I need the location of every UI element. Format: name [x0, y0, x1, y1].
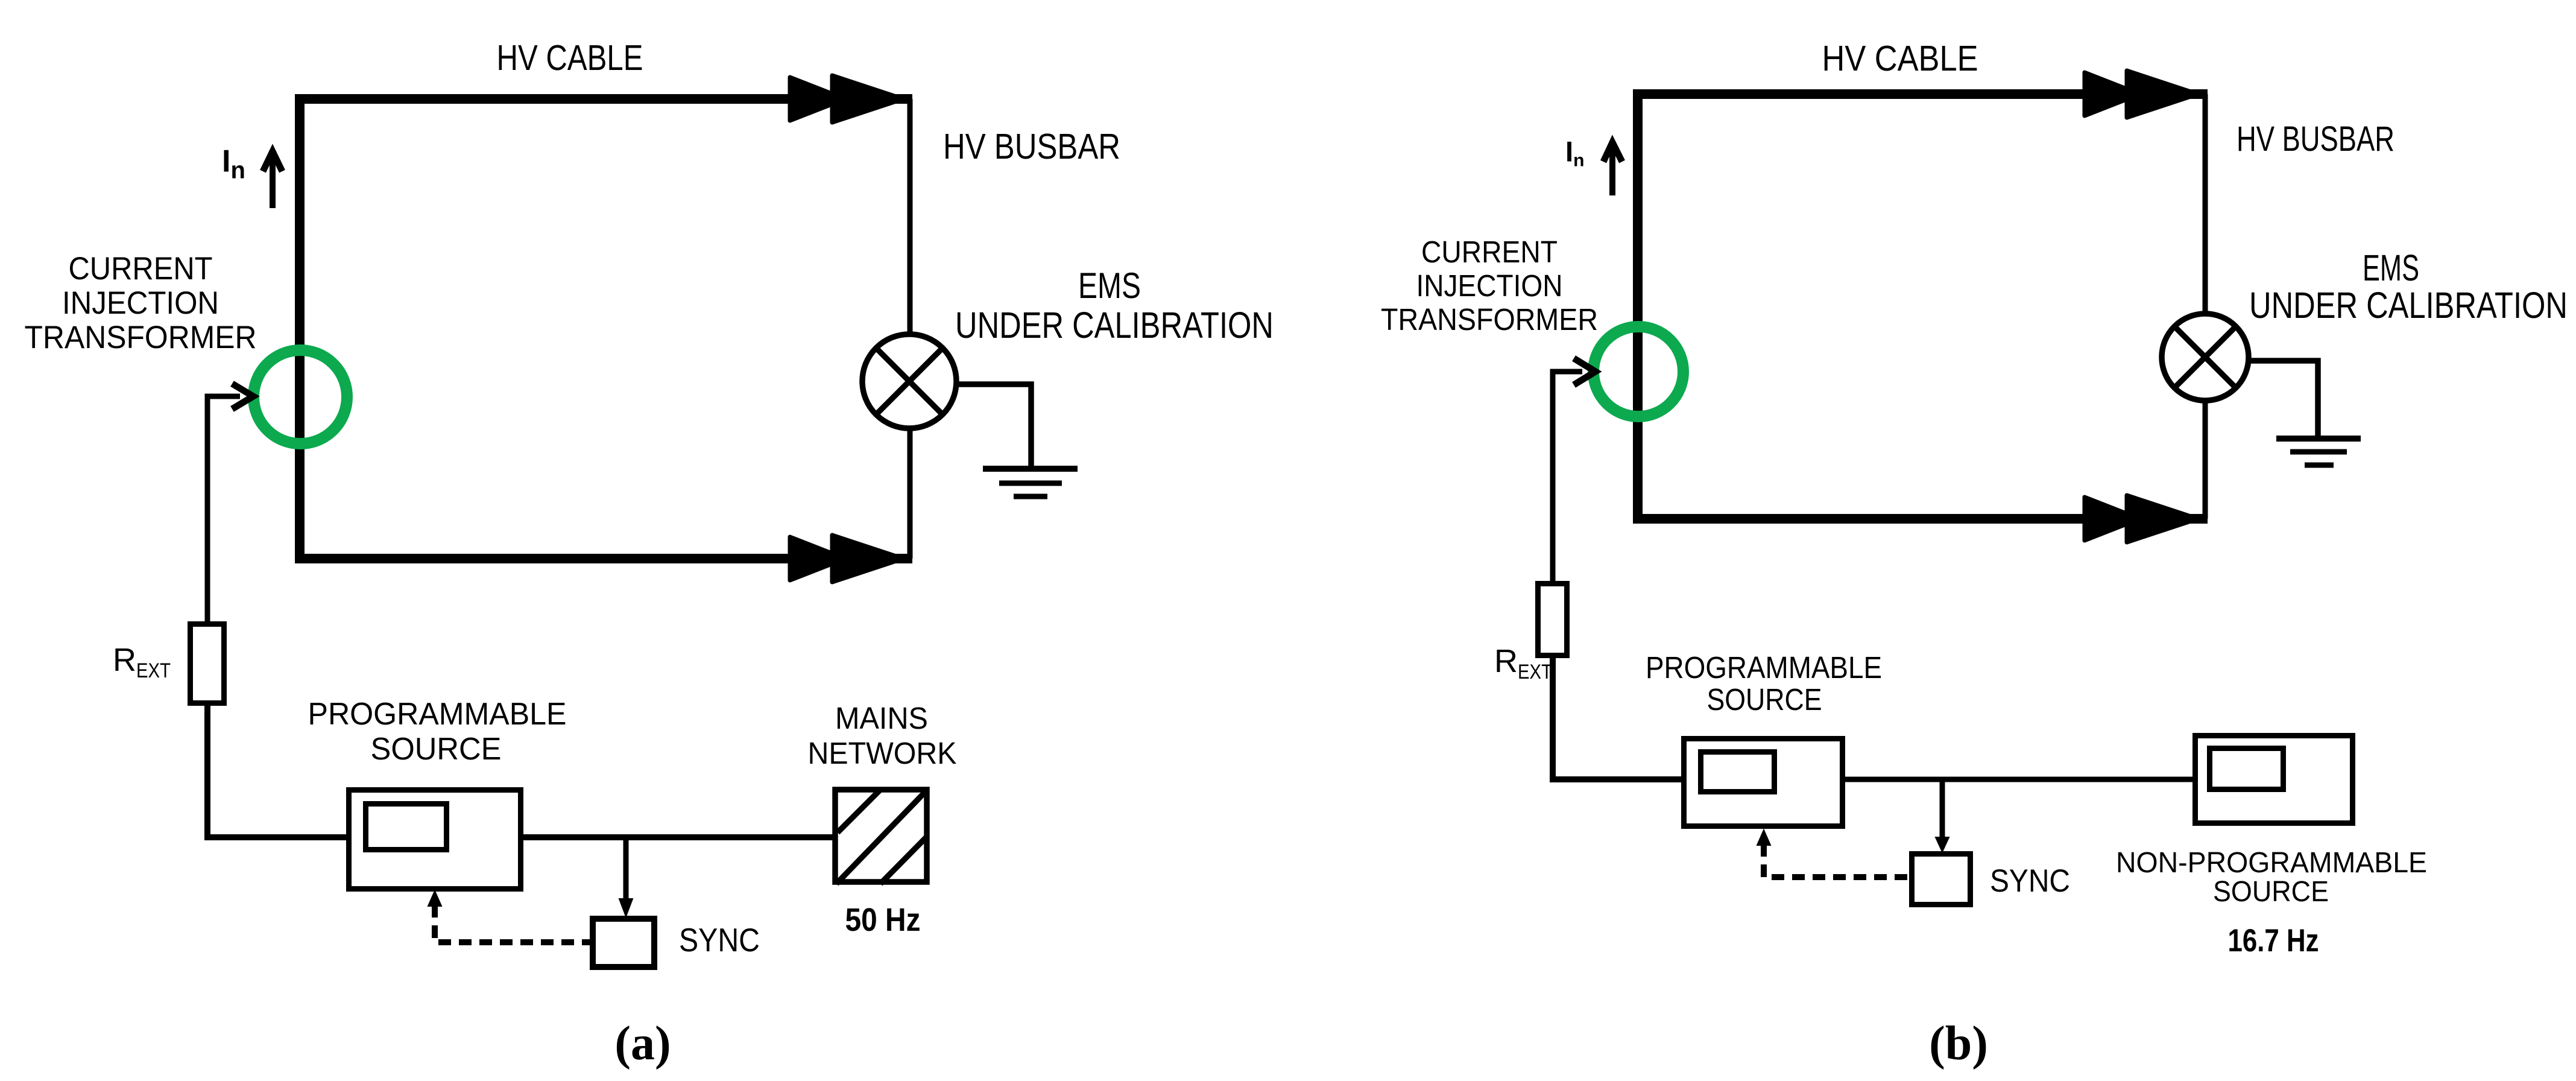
- svg-text:16.7 Hz: 16.7 Hz: [2228, 923, 2319, 959]
- svg-text:HV CABLE: HV CABLE: [1822, 39, 1978, 78]
- svg-text:(b): (b): [1929, 1017, 1988, 1070]
- svg-text:50 Hz: 50 Hz: [845, 902, 921, 938]
- svg-text:EMS: EMS: [1078, 265, 1141, 306]
- svg-text:MAINS: MAINS: [835, 701, 928, 735]
- svg-text:HV BUSBAR: HV BUSBAR: [2237, 119, 2394, 159]
- svg-text:TRANSFORMER: TRANSFORMER: [25, 320, 257, 355]
- svg-text:INJECTION: INJECTION: [62, 285, 219, 321]
- svg-text:UNDER CALIBRATION: UNDER CALIBRATION: [955, 305, 1274, 346]
- svg-text:INJECTION: INJECTION: [1416, 268, 1563, 303]
- svg-text:TRANSFORMER: TRANSFORMER: [1381, 302, 1598, 337]
- svg-text:PROGRAMMABLE: PROGRAMMABLE: [308, 697, 567, 732]
- svg-text:SYNC: SYNC: [679, 921, 760, 959]
- svg-text:HV BUSBAR: HV BUSBAR: [943, 127, 1120, 166]
- svg-text:CURRENT: CURRENT: [1421, 235, 1558, 269]
- svg-text:SOURCE: SOURCE: [371, 732, 502, 767]
- svg-text:NON-PROGRAMMABLE: NON-PROGRAMMABLE: [2116, 847, 2427, 879]
- svg-text:EMS: EMS: [2363, 247, 2419, 288]
- svg-text:SYNC: SYNC: [1990, 863, 2070, 899]
- svg-text:HV CABLE: HV CABLE: [497, 38, 643, 78]
- svg-text:NETWORK: NETWORK: [808, 736, 957, 770]
- svg-text:(a): (a): [614, 1017, 671, 1070]
- svg-text:SOURCE: SOURCE: [1707, 682, 1822, 717]
- svg-text:CURRENT: CURRENT: [69, 251, 213, 287]
- svg-text:SOURCE: SOURCE: [2213, 876, 2329, 908]
- svg-text:UNDER CALIBRATION: UNDER CALIBRATION: [2249, 285, 2568, 326]
- svg-text:PROGRAMMABLE: PROGRAMMABLE: [1646, 650, 1882, 685]
